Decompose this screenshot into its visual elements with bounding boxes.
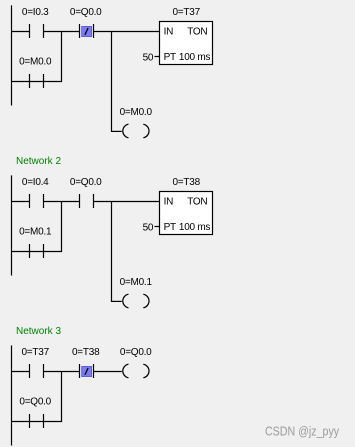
svg-text:0=T37: 0=T37 [173, 7, 201, 18]
svg-text:100 ms: 100 ms [179, 52, 211, 63]
svg-text:0=Q0.0: 0=Q0.0 [120, 347, 152, 358]
svg-text:50: 50 [143, 223, 154, 234]
svg-text:0=I0.3: 0=I0.3 [22, 7, 49, 18]
svg-text:100 ms: 100 ms [179, 222, 211, 233]
svg-text:PT: PT [164, 222, 176, 233]
svg-text:Network 3: Network 3 [16, 326, 61, 337]
svg-text:0=Q0.0: 0=Q0.0 [70, 7, 102, 18]
svg-text:0=T38: 0=T38 [173, 177, 201, 188]
svg-text:0=Q0.0: 0=Q0.0 [19, 397, 51, 408]
svg-text:TON: TON [187, 197, 207, 208]
svg-text:0=M0.0: 0=M0.0 [19, 57, 52, 68]
svg-text:Network 2: Network 2 [16, 156, 61, 167]
svg-text:50: 50 [143, 53, 154, 64]
svg-text:0=M0.1: 0=M0.1 [120, 277, 153, 288]
svg-text:0=T38: 0=T38 [72, 347, 100, 358]
svg-text:0=T37: 0=T37 [22, 347, 50, 358]
svg-text:IN: IN [164, 197, 174, 208]
svg-text:0=Q0.0: 0=Q0.0 [70, 177, 102, 188]
svg-text:0=M0.0: 0=M0.0 [120, 107, 153, 118]
svg-text:PT: PT [164, 52, 176, 63]
svg-text:0=I0.4: 0=I0.4 [22, 177, 49, 188]
svg-text:0=M0.1: 0=M0.1 [19, 227, 52, 238]
svg-text:TON: TON [187, 27, 207, 38]
svg-text:IN: IN [164, 27, 174, 38]
svg-text:CSDN @jz_pyy: CSDN @jz_pyy [265, 423, 339, 438]
